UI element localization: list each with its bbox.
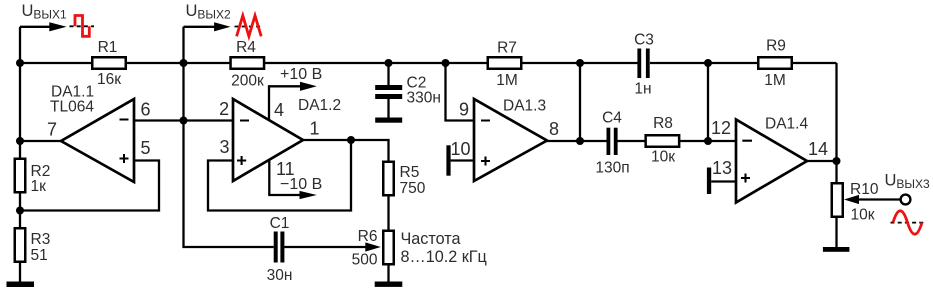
svg-text:9: 9 — [459, 100, 469, 120]
svg-text:R9: R9 — [766, 38, 786, 55]
svg-text:DA1.3: DA1.3 — [503, 98, 546, 115]
svg-text:R3: R3 — [31, 231, 51, 248]
svg-text:30н: 30н — [267, 267, 293, 284]
svg-text:C4: C4 — [602, 110, 622, 127]
svg-text:C3: C3 — [634, 32, 654, 49]
svg-text:DA1.2: DA1.2 — [298, 97, 341, 114]
svg-text:TL064: TL064 — [50, 99, 94, 116]
svg-text:7: 7 — [47, 120, 57, 140]
svg-text:R7: R7 — [497, 40, 517, 57]
svg-text:R1: R1 — [98, 39, 118, 56]
svg-text:5: 5 — [141, 138, 151, 158]
svg-text:1н: 1н — [634, 81, 651, 98]
svg-text:+10 В: +10 В — [280, 66, 322, 83]
svg-text:2: 2 — [219, 99, 229, 119]
svg-text:8: 8 — [549, 119, 559, 139]
svg-text:14: 14 — [808, 139, 828, 159]
svg-text:6: 6 — [141, 100, 151, 120]
svg-text:200к: 200к — [231, 73, 264, 90]
svg-text:1: 1 — [310, 119, 320, 139]
svg-text:16к: 16к — [97, 71, 121, 88]
svg-text:10к: 10к — [851, 207, 875, 224]
svg-text:DA1.4: DA1.4 — [765, 116, 808, 133]
svg-text:330н: 330н — [407, 90, 441, 107]
svg-text:4: 4 — [274, 100, 284, 120]
svg-text:13: 13 — [712, 158, 732, 178]
svg-text:R5: R5 — [400, 164, 420, 181]
svg-text:10к: 10к — [651, 149, 675, 166]
svg-text:3: 3 — [219, 137, 229, 157]
svg-text:51: 51 — [31, 247, 48, 264]
svg-text:10: 10 — [450, 139, 470, 159]
svg-text:R6: R6 — [358, 228, 378, 245]
svg-text:130п: 130п — [595, 160, 629, 177]
svg-text:750: 750 — [400, 180, 426, 197]
svg-text:R10: R10 — [850, 181, 879, 198]
svg-text:11: 11 — [276, 159, 295, 179]
svg-text:Частота: Частота — [401, 230, 461, 248]
svg-text:8…10.2 кГц: 8…10.2 кГц — [401, 248, 487, 266]
svg-text:500: 500 — [352, 252, 378, 269]
svg-text:R8: R8 — [653, 115, 673, 132]
svg-text:1М: 1М — [764, 72, 786, 89]
svg-text:12: 12 — [711, 118, 731, 138]
svg-text:R4: R4 — [236, 39, 256, 56]
svg-text:1М: 1М — [496, 72, 518, 89]
svg-text:C1: C1 — [270, 215, 290, 232]
svg-text:1к: 1к — [31, 178, 47, 195]
